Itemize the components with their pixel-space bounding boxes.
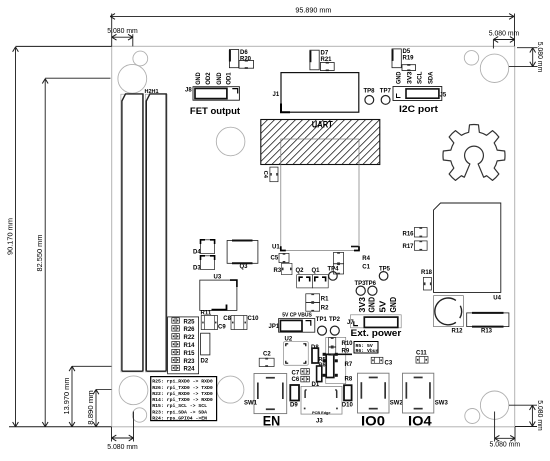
svg-text:R3: R3: [274, 268, 282, 274]
svg-text:D7: D7: [321, 51, 329, 57]
svg-text:SW2: SW2: [390, 401, 404, 407]
svg-text:C2: C2: [263, 352, 271, 358]
svg-text:IO0: IO0: [361, 413, 385, 429]
svg-text:R6: Vbus: R6: Vbus: [356, 348, 379, 354]
svg-text:5.080 mm: 5.080 mm: [536, 42, 543, 73]
svg-text:FET output: FET output: [190, 106, 240, 116]
svg-text:R15: R15: [184, 351, 196, 357]
svg-text:R8: R8: [345, 377, 353, 383]
svg-text:R24: R24: [184, 367, 196, 373]
svg-text:D6: D6: [240, 50, 248, 56]
svg-text:R18: R18: [421, 270, 433, 276]
svg-text:5.080 mm: 5.080 mm: [490, 442, 521, 449]
svg-text:3V3: 3V3: [357, 297, 367, 313]
svg-text:C11: C11: [416, 351, 427, 357]
svg-text:IO4: IO4: [408, 413, 432, 429]
svg-text:R17: R17: [403, 244, 415, 250]
svg-text:Q1: Q1: [312, 268, 321, 274]
svg-text:R25: R25: [184, 319, 196, 325]
svg-text:Q2: Q2: [296, 268, 305, 274]
svg-text:I2C port: I2C port: [399, 104, 438, 114]
svg-text:R14: R14: [184, 343, 196, 349]
svg-text:J5: J5: [440, 93, 447, 99]
svg-text:R22: rpi_RXD0 -> TXD0: R22: rpi_RXD0 -> TXD0: [152, 391, 213, 397]
svg-text:EN: EN: [263, 413, 281, 429]
svg-text:90.170 mm: 90.170 mm: [8, 218, 15, 255]
svg-text:SDA: SDA: [427, 71, 434, 84]
svg-text:GND: GND: [216, 72, 223, 85]
svg-text:R16: R16: [403, 232, 415, 238]
svg-text:R22: R22: [184, 335, 196, 341]
svg-text:R24: rps_GPIO4 ->EN: R24: rps_GPIO4 ->EN: [152, 415, 207, 421]
svg-text:U3: U3: [214, 275, 222, 281]
svg-text:R4: R4: [362, 256, 370, 262]
svg-text:J8: J8: [185, 88, 192, 94]
svg-text:C6: C6: [292, 377, 300, 383]
svg-text:R19: R19: [403, 56, 415, 62]
svg-text:J1: J1: [273, 92, 280, 98]
svg-text:5.080 mm: 5.080 mm: [489, 31, 520, 38]
svg-text:D1: D1: [312, 382, 320, 388]
svg-text:3V3: 3V3: [406, 71, 413, 84]
svg-text:C1: C1: [362, 265, 370, 271]
svg-text:Ext. power: Ext. power: [351, 328, 402, 338]
svg-text:D10: D10: [342, 403, 354, 409]
svg-text:C8: C8: [223, 316, 231, 322]
svg-text:SCL: SCL: [417, 71, 424, 84]
svg-text:TP8: TP8: [364, 89, 376, 95]
svg-text:SW1: SW1: [244, 401, 258, 407]
svg-text:SW3: SW3: [435, 401, 449, 407]
svg-text:R23: R23: [184, 359, 196, 365]
svg-text:D3: D3: [193, 265, 201, 271]
svg-text:PCB Edge: PCB Edge: [312, 411, 330, 415]
svg-text:C9: C9: [218, 325, 226, 331]
svg-text:R23: rpi_SDA -> SDA: R23: rpi_SDA -> SDA: [152, 409, 207, 415]
svg-text:8.890 mm: 8.890 mm: [88, 390, 95, 425]
svg-text:Q3: Q3: [240, 264, 249, 270]
svg-text:R25: rpi_RXD0 -> RXD0: R25: rpi_RXD0 -> RXD0: [152, 379, 213, 385]
svg-text:TP7: TP7: [380, 89, 392, 95]
svg-text:GND: GND: [396, 71, 403, 84]
svg-text:5.080 mm: 5.080 mm: [107, 28, 138, 35]
svg-text:R26: R26: [184, 327, 196, 333]
svg-text:OD1: OD1: [226, 72, 233, 85]
svg-text:5V: 5V: [378, 300, 388, 312]
svg-text:C5: C5: [271, 255, 279, 261]
svg-text:J3: J3: [316, 419, 323, 425]
svg-text:R9: R9: [342, 349, 350, 355]
svg-text:OD2: OD2: [205, 72, 212, 85]
svg-text:R14: rpi_TXD0 -> RXD0: R14: rpi_TXD0 -> RXD0: [152, 397, 213, 403]
svg-text:D9: D9: [290, 403, 298, 409]
svg-text:R26: rpi_TXD0 -> TXD0: R26: rpi_TXD0 -> TXD0: [152, 385, 213, 391]
svg-text:R15: rpi_SCL -> SCL: R15: rpi_SCL -> SCL: [152, 403, 207, 409]
svg-text:TP2: TP2: [329, 317, 341, 323]
svg-text:C7: C7: [292, 371, 300, 377]
svg-text:TP1: TP1: [316, 317, 328, 323]
svg-text:C10: C10: [248, 316, 260, 322]
svg-text:UART: UART: [312, 119, 333, 130]
svg-text:C4: C4: [262, 171, 268, 179]
svg-text:82.550 mm: 82.550 mm: [37, 234, 44, 271]
svg-text:D2: D2: [201, 359, 209, 365]
svg-text:R2: R2: [321, 306, 329, 312]
svg-text:5.080 mm: 5.080 mm: [536, 400, 543, 431]
svg-text:JP1: JP1: [269, 324, 280, 330]
svg-text:GND: GND: [195, 72, 202, 85]
svg-text:GND: GND: [367, 297, 377, 313]
svg-text:D5: D5: [403, 49, 411, 55]
svg-text:13.970 mm: 13.970 mm: [64, 377, 71, 414]
svg-text:GND: GND: [388, 297, 398, 313]
svg-text:R7: R7: [345, 362, 353, 368]
svg-text:95.890 mm: 95.890 mm: [295, 8, 331, 15]
svg-text:R12: R12: [452, 329, 464, 335]
svg-text:U1: U1: [272, 245, 280, 251]
svg-text:D4: D4: [193, 249, 201, 255]
svg-text:5V CP VBUS: 5V CP VBUS: [282, 313, 312, 319]
svg-text:R5: 5V: R5: 5V: [356, 343, 373, 349]
svg-text:R13: R13: [481, 329, 493, 335]
svg-text:R10: R10: [342, 341, 354, 347]
svg-text:C3: C3: [385, 361, 393, 367]
svg-text:U4: U4: [493, 296, 501, 302]
svg-text:R1: R1: [321, 297, 329, 303]
svg-text:5.080 mm: 5.080 mm: [107, 444, 138, 451]
